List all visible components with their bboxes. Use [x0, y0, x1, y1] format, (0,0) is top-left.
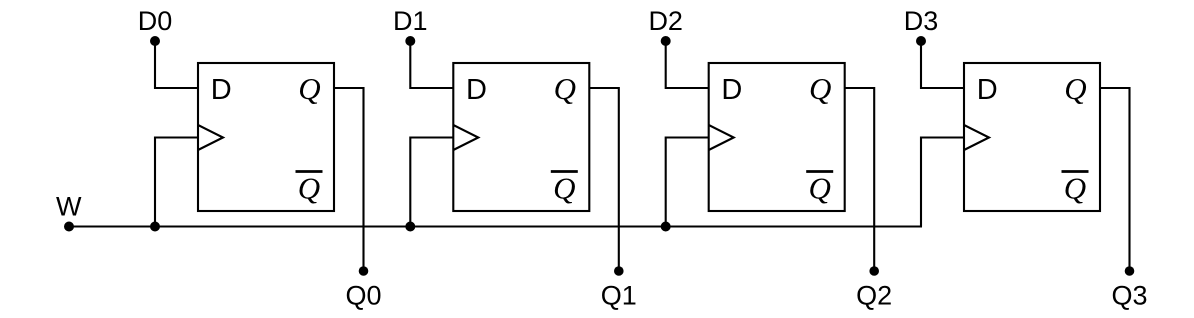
svg-text:Q: Q [553, 171, 575, 206]
svg-text:D1: D1 [393, 6, 428, 36]
svg-text:D0: D0 [138, 6, 173, 36]
svg-text:Q1: Q1 [601, 281, 637, 311]
svg-text:D: D [977, 74, 998, 106]
svg-text:D: D [211, 74, 232, 106]
svg-text:Q: Q [298, 71, 320, 106]
svg-text:Q: Q [1064, 171, 1086, 206]
svg-text:D: D [466, 74, 487, 106]
svg-text:Q: Q [298, 171, 320, 206]
svg-text:D3: D3 [904, 6, 939, 36]
svg-text:Q: Q [809, 171, 831, 206]
svg-text:D: D [721, 74, 742, 106]
svg-text:Q2: Q2 [856, 281, 892, 311]
svg-text:Q: Q [1064, 71, 1086, 106]
svg-text:Q: Q [809, 71, 831, 106]
svg-text:D2: D2 [648, 6, 683, 36]
svg-text:Q: Q [554, 71, 576, 106]
svg-text:Q0: Q0 [345, 281, 381, 311]
svg-text:W: W [56, 191, 82, 221]
svg-text:Q3: Q3 [1111, 281, 1147, 311]
